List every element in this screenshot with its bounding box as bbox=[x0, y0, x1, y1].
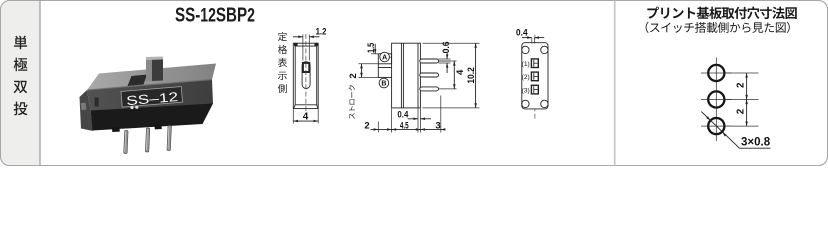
svg-text:1.2: 1.2 bbox=[316, 26, 327, 37]
svg-text:0.4: 0.4 bbox=[516, 27, 528, 38]
svg-text:4: 4 bbox=[455, 69, 466, 75]
svg-text:2: 2 bbox=[735, 82, 746, 88]
svg-text:(2): (2) bbox=[522, 74, 530, 81]
svg-text:10.2: 10.2 bbox=[466, 67, 477, 84]
svg-text:0.4: 0.4 bbox=[397, 110, 409, 121]
svg-text:(3): (3) bbox=[522, 87, 530, 94]
svg-text:4.5: 4.5 bbox=[400, 121, 409, 132]
svg-text:2: 2 bbox=[348, 73, 359, 78]
svg-text:SS-12SBP2: SS-12SBP2 bbox=[175, 3, 255, 26]
svg-text:2: 2 bbox=[735, 108, 746, 114]
svg-text:1.5: 1.5 bbox=[366, 43, 376, 53]
svg-text:B: B bbox=[381, 81, 386, 88]
svg-text:A: A bbox=[382, 55, 387, 62]
svg-text:3×0.8: 3×0.8 bbox=[741, 137, 771, 149]
svg-text:4: 4 bbox=[303, 111, 309, 122]
svg-text:(1): (1) bbox=[522, 61, 530, 68]
svg-text:2: 2 bbox=[364, 121, 369, 132]
svg-text:3: 3 bbox=[435, 121, 440, 132]
